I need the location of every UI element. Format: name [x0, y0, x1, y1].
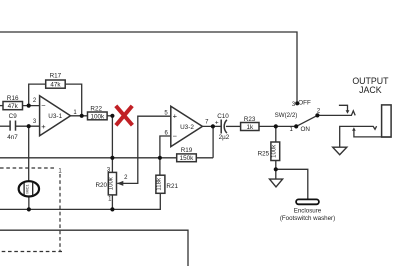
svg-text:JACK: JACK — [359, 85, 382, 95]
svg-text:(Footswitch washer): (Footswitch washer) — [280, 215, 335, 222]
svg-text:R22: R22 — [90, 106, 102, 113]
svg-text:+: + — [215, 119, 219, 126]
svg-text:−: − — [41, 101, 46, 110]
svg-text:2µ2: 2µ2 — [219, 134, 230, 141]
svg-text:R17: R17 — [50, 73, 62, 80]
svg-text:2: 2 — [33, 98, 37, 104]
svg-text:SW(2/2): SW(2/2) — [275, 112, 298, 119]
svg-text:1k: 1k — [246, 124, 254, 131]
svg-text:47k: 47k — [50, 82, 61, 89]
svg-text:47k: 47k — [8, 103, 19, 110]
svg-text:R21: R21 — [166, 183, 178, 190]
svg-text:100k: 100k — [108, 176, 114, 190]
svg-text:+: + — [173, 112, 178, 121]
svg-text:R19: R19 — [181, 147, 193, 154]
svg-text:4n7: 4n7 — [7, 134, 18, 141]
svg-text:Enclosure: Enclosure — [294, 208, 322, 215]
svg-text:2: 2 — [124, 175, 128, 181]
svg-text:C10: C10 — [217, 113, 229, 120]
svg-text:C9: C9 — [9, 113, 18, 120]
svg-text:ON: ON — [300, 126, 310, 133]
svg-text:MIC1: MIC1 — [25, 183, 30, 193]
svg-text:R23: R23 — [244, 116, 256, 123]
svg-text:−: − — [173, 131, 178, 140]
svg-text:1: 1 — [58, 169, 62, 175]
svg-text:100k: 100k — [90, 113, 105, 120]
svg-text:1: 1 — [108, 196, 112, 202]
svg-text:U3-1: U3-1 — [48, 113, 62, 120]
svg-text:U3-2: U3-2 — [180, 124, 194, 131]
svg-text:150k: 150k — [180, 155, 195, 162]
svg-text:1: 1 — [73, 110, 77, 116]
svg-text:5: 5 — [164, 110, 168, 116]
svg-text:+: + — [41, 122, 46, 131]
svg-text:R16: R16 — [7, 95, 19, 102]
svg-text:3: 3 — [33, 119, 37, 125]
svg-text:R20: R20 — [95, 182, 107, 189]
svg-text:7: 7 — [205, 119, 209, 125]
svg-text:2: 2 — [317, 108, 321, 114]
svg-text:100k: 100k — [271, 144, 277, 158]
svg-text:118k: 118k — [156, 177, 162, 191]
svg-text:OFF: OFF — [298, 100, 311, 107]
svg-text:1: 1 — [290, 127, 294, 133]
svg-text:R25: R25 — [258, 150, 270, 157]
